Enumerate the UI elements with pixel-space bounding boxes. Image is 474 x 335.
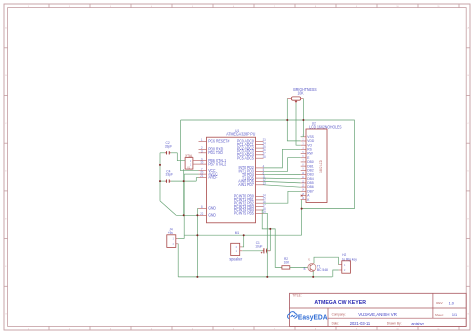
svg-text:28: 28 — [263, 155, 266, 159]
svg-text:33pF: 33pF — [165, 144, 173, 148]
svg-text:EasyEDA: EasyEDA — [298, 313, 328, 321]
svg-text:PB7 XTAL2: PB7 XTAL2 — [208, 162, 226, 166]
svg-text:B: B — [304, 267, 306, 271]
svg-text:DB2: DB2 — [307, 168, 313, 172]
svg-text:BRIGHTNESS: BRIGHTNESS — [293, 87, 317, 92]
svg-text:Drawn By:: Drawn By: — [387, 321, 402, 325]
svg-text:DB1: DB1 — [307, 164, 313, 168]
svg-text:10uF: 10uF — [255, 244, 263, 248]
svg-text:TITLE:: TITLE: — [292, 294, 301, 298]
svg-text:1/1: 1/1 — [452, 313, 457, 317]
svg-text:AIN1 PD7: AIN1 PD7 — [238, 183, 253, 187]
svg-text:1602 LCD: 1602 LCD — [319, 160, 323, 173]
svg-text:PCINT5 PB5: PCINT5 PB5 — [234, 211, 254, 215]
svg-text:LCD 16X2NOHOLES: LCD 16X2NOHOLES — [309, 125, 342, 129]
svg-text:VDD: VDD — [307, 139, 314, 143]
svg-text:DB3: DB3 — [307, 172, 313, 176]
svg-text:ATMEGA328P PU: ATMEGA328P PU — [226, 131, 255, 136]
svg-text:speaker: speaker — [229, 256, 242, 261]
svg-text:21: 21 — [200, 174, 203, 178]
svg-text:RW: RW — [307, 151, 313, 155]
svg-text:8: 8 — [201, 205, 203, 209]
svg-text:REV:: REV: — [436, 301, 443, 305]
svg-text:1.0: 1.0 — [449, 301, 454, 305]
svg-text:BC 548: BC 548 — [317, 268, 328, 272]
svg-text:DB6: DB6 — [307, 185, 313, 189]
svg-text:AREF: AREF — [208, 175, 218, 179]
svg-text:M1: M1 — [235, 231, 239, 235]
svg-text:PD1 TXD: PD1 TXD — [208, 151, 223, 155]
svg-text:DB4: DB4 — [307, 177, 313, 181]
svg-text:ATMEGA CW KEYER: ATMEGA CW KEYER — [314, 300, 366, 306]
svg-text:DB7: DB7 — [307, 189, 313, 193]
svg-text:H2: H2 — [342, 253, 346, 257]
svg-text:VSS: VSS — [307, 135, 314, 139]
svg-text:Company:: Company: — [332, 312, 346, 316]
svg-text:+5v: +5v — [168, 231, 173, 235]
svg-text:1: 1 — [201, 138, 203, 142]
svg-text:VO: VO — [307, 143, 312, 147]
svg-text:33pF: 33pF — [166, 172, 174, 176]
svg-text:anishvr: anishvr — [411, 321, 424, 326]
svg-text:2021-03-11: 2021-03-11 — [350, 321, 371, 326]
svg-text:PC6 RESET#: PC6 RESET# — [208, 139, 230, 143]
svg-text:3: 3 — [201, 149, 203, 153]
svg-text:GND: GND — [208, 213, 216, 217]
svg-text:DB0: DB0 — [307, 160, 313, 164]
svg-text:Sheet:: Sheet: — [435, 313, 444, 317]
svg-text:PC5 ADC5: PC5 ADC5 — [237, 156, 254, 160]
svg-text:DB5: DB5 — [307, 181, 313, 185]
svg-text:22: 22 — [200, 212, 203, 216]
svg-text:VU3AVE,ANISH VR: VU3AVE,ANISH VR — [358, 312, 397, 317]
svg-text:10: 10 — [200, 160, 203, 164]
svg-text:GND: GND — [208, 206, 216, 210]
svg-text:10K: 10K — [284, 260, 290, 264]
svg-text:RS: RS — [307, 147, 312, 151]
svg-text:Date:: Date: — [332, 321, 340, 325]
svg-text:10K: 10K — [297, 91, 303, 95]
